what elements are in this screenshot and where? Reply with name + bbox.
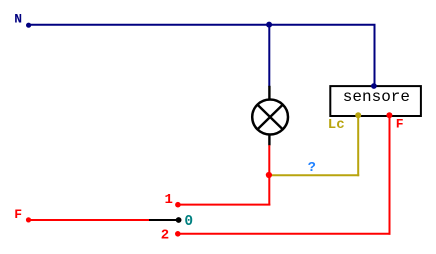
- sensor terminal Lc dot: [355, 112, 361, 118]
- node F terminal dot (left): [26, 217, 31, 222]
- wire Lc vertical: [357, 115, 359, 176]
- node switch common 0 dot: [176, 217, 182, 223]
- svg-text:0: 0: [184, 214, 193, 230]
- node junction lamp/Lc/switch1: [266, 172, 272, 178]
- svg-text:N: N: [14, 12, 22, 27]
- wire switch common (black part): [149, 219, 179, 221]
- node switch contact 2 dot: [175, 231, 181, 237]
- wire Lc horizontal to junction: [270, 174, 359, 176]
- node switch contact 1 dot: [175, 202, 181, 208]
- node junction on N wire: [266, 22, 272, 28]
- sensor terminal F dot: [386, 112, 392, 118]
- sensor U1 box: [330, 86, 421, 116]
- lamp L1 circle: [252, 100, 288, 135]
- wire junction to switch contact 1: [178, 204, 270, 206]
- wire switch contact 2 horizontal: [178, 233, 391, 235]
- svg-text:2: 2: [161, 228, 169, 244]
- wire N horizontal (neutral): [28, 24, 376, 26]
- wire F phase horizontal (red part): [29, 219, 150, 221]
- node N terminal dot: [26, 23, 31, 28]
- svg-text:Lc: Lc: [328, 117, 345, 133]
- svg-text:1: 1: [165, 192, 173, 208]
- wire N drop to lamp: [268, 25, 270, 87]
- node sensor top terminal dot: [371, 83, 377, 89]
- svg-text:?: ?: [308, 161, 316, 176]
- lamp L1 bottom lead: [268, 135, 270, 145]
- wire N drop to sensor: [374, 24, 376, 86]
- wire sensor F vertical: [389, 115, 391, 234]
- lamp L1 cross: [257, 105, 282, 130]
- lamp L1 top lead: [268, 86, 270, 99]
- svg-text:F: F: [396, 117, 404, 132]
- wire lamp to junction (red): [268, 145, 270, 205]
- svg-text:F: F: [14, 207, 22, 222]
- svg-text:sensore: sensore: [343, 88, 410, 106]
